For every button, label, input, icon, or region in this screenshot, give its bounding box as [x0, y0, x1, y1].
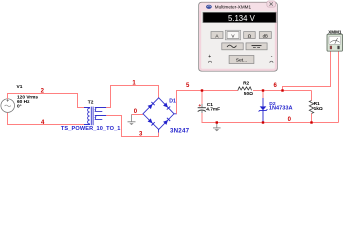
wire net 3 (T2 center tap to bridge bottom) — [106, 116, 158, 137]
ground (output rail) — [213, 123, 221, 132]
diode LT — [148, 104, 153, 109]
C1 plus mark — [199, 104, 201, 106]
wire XMM+ branch — [283, 51, 331, 90]
junction D2 top — [262, 89, 264, 91]
wire net 1 (T2 secondary top to bridge top) — [106, 86, 158, 108]
junction C1 top — [201, 89, 203, 91]
svg-text:T2: T2 — [88, 100, 94, 106]
wire net 5 (bridge right up to top rail, rail to R1) — [177, 91, 238, 114]
diode LB — [148, 118, 153, 123]
wire net 6 (R2 to R1 top) — [253, 90, 312, 92]
capacitor C1 (polarized) — [198, 104, 206, 114]
AC power source V1 — [1, 99, 15, 113]
bridge bottom lead stub — [158, 130, 160, 133]
svg-text:V1: V1 — [17, 84, 23, 90]
T2 secondary winding A — [95, 108, 107, 112]
svg-text:1kΩ: 1kΩ — [314, 106, 323, 112]
junction XMM+ — [281, 89, 283, 91]
svg-text:dB: dB — [263, 33, 268, 38]
D1 right lead stub — [174, 113, 177, 115]
buttons row 1 — [211, 30, 271, 40]
resistor R1 — [309, 101, 313, 114]
T2 core lines — [90, 107, 92, 126]
svg-text:50Ω: 50Ω — [244, 91, 253, 97]
D2 cathode lead — [262, 110, 264, 122]
wire C1 bottom — [202, 113, 339, 123]
svg-text:Multimeter-XMM1: Multimeter-XMM1 — [215, 5, 252, 10]
wire R1 bottom lead — [311, 114, 313, 123]
wire D2 branch — [262, 91, 264, 99]
buttons row 2 — [222, 43, 267, 50]
svg-text:Set...: Set... — [236, 58, 247, 64]
svg-text:4.7mF: 4.7mF — [206, 107, 220, 113]
V1 sine mark — [5, 105, 11, 107]
svg-text:Ω: Ω — [248, 33, 252, 38]
resistor R2 — [238, 87, 252, 91]
wire R1 top lead — [311, 91, 313, 101]
svg-text:6: 6 — [274, 83, 278, 89]
wire net 2 (V1 top to T2 primary top) — [8, 94, 85, 108]
diode TR — [163, 103, 168, 108]
title bar — [200, 3, 277, 11]
wire net 0 (bridge left to ground) — [132, 114, 144, 116]
XMM1 icon needle — [335, 38, 338, 44]
svg-text:5.134 V: 5.134 V — [228, 14, 256, 23]
bridge rectifier D1 — [143, 98, 177, 130]
junction R1 bottom — [310, 121, 312, 123]
svg-text:0°: 0° — [17, 104, 22, 110]
wire net 4 (V1 bottom to T2 primary bottom) — [8, 113, 85, 125]
ground (near bridge) — [128, 115, 136, 126]
V1 body circle — [1, 99, 15, 113]
svg-text:R2: R2 — [243, 81, 249, 87]
diode BR — [163, 120, 168, 125]
D1 diamond outline — [143, 98, 174, 130]
svg-text:3N247: 3N247 — [170, 128, 190, 135]
title icon — [206, 5, 212, 9]
T2 secondary winding B — [95, 116, 107, 120]
XMM1 icon body — [327, 34, 343, 51]
svg-text:XMM1: XMM1 — [328, 29, 342, 34]
junction D2 bottom — [262, 121, 264, 123]
wire C1 branch — [201, 91, 203, 105]
svg-text:D1: D1 — [169, 99, 176, 105]
XMM1 icon + terminal — [330, 46, 332, 49]
D2 zener cathode bar — [259, 109, 268, 111]
D2 triangle — [260, 106, 267, 110]
svg-text:+: + — [208, 54, 211, 60]
Set button — [229, 56, 254, 64]
transformer T2 — [84, 107, 106, 126]
display — [203, 12, 276, 22]
window frame — [199, 2, 277, 71]
V1 plus polarity mark — [7, 99, 9, 101]
wire XMM- branch — [338, 51, 340, 122]
XMM1 icon - terminal — [337, 46, 339, 49]
close button — [267, 1, 276, 7]
svg-text:4: 4 — [41, 120, 45, 126]
zener diode D2 — [259, 98, 268, 122]
XMM1 icon meter face — [329, 36, 341, 44]
D2 anode lead — [262, 98, 264, 106]
T2 primary coil — [84, 108, 90, 125]
junction ground tap — [216, 121, 218, 123]
svg-text:TS_POWER_10_TO_1: TS_POWER_10_TO_1 — [61, 126, 121, 132]
svg-text:0: 0 — [288, 117, 292, 123]
svg-text:1N4733A: 1N4733A — [269, 106, 293, 112]
svg-text:5: 5 — [186, 83, 190, 89]
XMM1 icon meter scale arc — [330, 40, 340, 42]
